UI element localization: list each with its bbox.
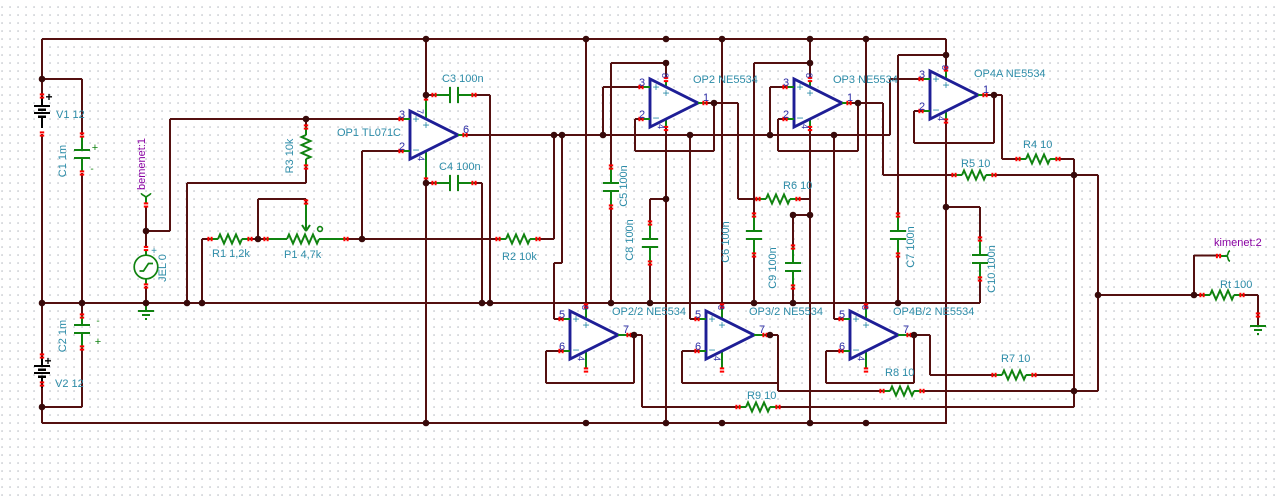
svg-text:7: 7 (623, 324, 629, 336)
svg-text:R6 10: R6 10 (783, 180, 812, 192)
svg-text:5: 5 (695, 309, 701, 321)
svg-text:C8 100n: C8 100n (624, 219, 636, 261)
svg-text:−: − (572, 343, 579, 357)
svg-text:R5 10: R5 10 (961, 158, 990, 170)
svg-text:+: + (422, 118, 429, 132)
svg-text:OP1 TL071C: OP1 TL071C (337, 127, 401, 139)
svg-text:C1 1m: C1 1m (57, 145, 69, 177)
svg-text:+: + (45, 90, 52, 104)
svg-text:+: + (708, 312, 715, 326)
svg-text:C6 100n: C6 100n (720, 221, 732, 263)
svg-text:kimenet:2: kimenet:2 (1214, 237, 1262, 249)
svg-text:-: - (90, 164, 93, 175)
svg-text:8: 8 (804, 73, 814, 78)
svg-text:+: + (796, 80, 803, 94)
svg-text:8: 8 (580, 305, 590, 310)
svg-text:2: 2 (639, 109, 645, 121)
svg-text:3: 3 (639, 77, 645, 89)
svg-text:OP3/2 NE5534: OP3/2 NE5534 (749, 306, 823, 318)
svg-text:R8 10: R8 10 (885, 367, 914, 379)
svg-text:2: 2 (783, 109, 789, 121)
svg-text:2: 2 (919, 101, 925, 113)
svg-text:6: 6 (463, 124, 469, 136)
svg-text:−: − (652, 111, 659, 125)
svg-text:−: − (796, 111, 803, 125)
svg-text:JEL 0: JEL 0 (157, 254, 169, 282)
svg-text:R9 10: R9 10 (747, 390, 776, 402)
svg-text:R3 10k: R3 10k (284, 138, 296, 173)
svg-text:+: + (718, 318, 725, 332)
svg-text:8: 8 (940, 65, 950, 70)
svg-text:6: 6 (839, 341, 845, 353)
svg-text:+: + (806, 86, 813, 100)
svg-text:+: + (95, 336, 101, 348)
svg-text:C2 1m: C2 1m (57, 320, 69, 352)
svg-text:+: + (582, 318, 589, 332)
svg-text:C4 100n: C4 100n (439, 161, 481, 173)
svg-text:C3 100n: C3 100n (442, 73, 484, 85)
svg-text:+: + (942, 78, 949, 92)
svg-text:P1 4,7k: P1 4,7k (284, 249, 322, 261)
svg-text:8: 8 (660, 73, 670, 78)
svg-text:7: 7 (759, 324, 765, 336)
svg-text:OP4B/2 NE5534: OP4B/2 NE5534 (893, 306, 974, 318)
svg-text:6: 6 (695, 341, 701, 353)
svg-text:−: − (708, 343, 715, 357)
svg-text:R2 10k: R2 10k (502, 251, 537, 263)
svg-text:+: + (92, 142, 98, 154)
svg-text:5: 5 (559, 309, 565, 321)
svg-text:OP2 NE5534: OP2 NE5534 (693, 74, 758, 86)
svg-text:7: 7 (903, 324, 909, 336)
svg-text:V1 12: V1 12 (56, 109, 85, 121)
svg-text:+: + (662, 86, 669, 100)
svg-text:C10 100n: C10 100n (986, 245, 998, 293)
svg-text:Rt 100: Rt 100 (1220, 279, 1252, 291)
svg-text:3: 3 (783, 77, 789, 89)
svg-text:C5 100n: C5 100n (618, 165, 630, 207)
svg-text:R1 1,2k: R1 1,2k (212, 248, 250, 260)
svg-text:−: − (932, 103, 939, 117)
svg-text:1: 1 (847, 92, 853, 104)
svg-text:+: + (852, 312, 859, 326)
svg-text:−: − (412, 143, 419, 157)
svg-text:6: 6 (559, 341, 565, 353)
svg-text:-: - (96, 316, 99, 327)
svg-text:+: + (862, 318, 869, 332)
svg-text:3: 3 (919, 69, 925, 81)
svg-text:1: 1 (703, 92, 709, 104)
svg-text:5: 5 (839, 309, 845, 321)
svg-text:OP3 NE5534: OP3 NE5534 (833, 74, 898, 86)
svg-text:R7 10: R7 10 (1001, 353, 1030, 365)
svg-text:+: + (44, 354, 51, 368)
svg-text:C9 100n: C9 100n (767, 247, 779, 289)
svg-text:OP4A NE5534: OP4A NE5534 (974, 68, 1046, 80)
svg-text:8: 8 (716, 305, 726, 310)
svg-text:OP2/2 NE5534: OP2/2 NE5534 (612, 306, 686, 318)
svg-text:bemenet:1: bemenet:1 (136, 138, 148, 190)
svg-text:2: 2 (399, 141, 405, 153)
svg-text:−: − (852, 343, 859, 357)
svg-text:+: + (572, 312, 579, 326)
svg-text:V2 12: V2 12 (55, 378, 84, 390)
svg-text:+: + (412, 112, 419, 126)
svg-text:+: + (932, 72, 939, 86)
svg-text:C7 100n: C7 100n (905, 226, 917, 268)
svg-text:3: 3 (399, 109, 405, 121)
svg-text:8: 8 (860, 305, 870, 310)
svg-text:1: 1 (983, 84, 989, 96)
svg-text:+: + (652, 80, 659, 94)
svg-text:R4 10: R4 10 (1023, 139, 1052, 151)
